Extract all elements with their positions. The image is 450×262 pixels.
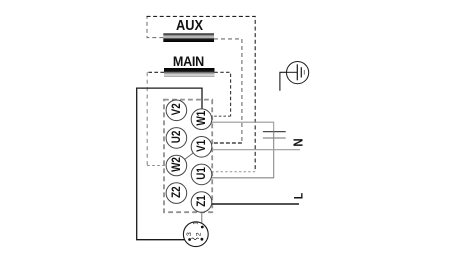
svg-text:V1: V1: [195, 140, 208, 152]
wire frame W1 to sensor (solid): [137, 88, 202, 240]
terminal V2: [166, 100, 187, 121]
svg-text:2: 2: [196, 232, 203, 236]
wire N line from V1: [211, 149, 300, 151]
terminal U2: [166, 128, 187, 149]
wire capacitor top from W1: [211, 122, 274, 131]
capacitor C: [263, 132, 286, 138]
squiggle: [192, 238, 199, 240]
wire AUX-right to V1: [211, 39, 242, 143]
svg-text:L: L: [293, 193, 306, 200]
terminal Z1: [191, 192, 212, 213]
wire MAIN-left to W2: [147, 72, 166, 165]
ground symbol: [287, 62, 309, 84]
winding MAIN: [164, 68, 215, 77]
svg-text:W1: W1: [195, 111, 208, 126]
pin dot lower right: [201, 238, 204, 241]
pin dot lower left: [188, 238, 191, 241]
wire top dashed run to U1: [147, 16, 256, 171]
svg-text:U2: U2: [170, 131, 183, 144]
sensor connector: [183, 221, 208, 247]
wire L line from Z1: [212, 203, 299, 205]
wire capacitor bottom to U1: [211, 131, 274, 177]
terminal box dashed: [164, 100, 212, 213]
wire MAIN-right to W1: [211, 72, 230, 116]
terminal Z2: [166, 183, 187, 204]
svg-text:AUX: AUX: [176, 16, 204, 33]
svg-text:3: 3: [186, 232, 193, 236]
ground wire: [280, 72, 287, 90]
terminal V1: [191, 137, 212, 158]
terminal W1: [191, 109, 212, 130]
svg-text:N: N: [291, 138, 306, 146]
winding AUX: [163, 33, 214, 42]
terminal W2: [166, 155, 187, 176]
pin dot upper right: [201, 226, 204, 229]
svg-text:Z2: Z2: [170, 186, 183, 198]
wire U1 horizontal dashed: [212, 171, 256, 173]
svg-text:U1: U1: [195, 167, 208, 180]
svg-text:Z1: Z1: [195, 195, 208, 207]
svg-text:W2: W2: [170, 157, 183, 172]
terminal U1: [191, 164, 212, 185]
svg-text:MAIN: MAIN: [173, 53, 204, 69]
svg-text:V2: V2: [170, 103, 183, 115]
link W2 to V1: [185, 153, 194, 160]
wire AUX-left to top: [147, 16, 163, 37]
wire Z1 to sensor: [201, 212, 203, 223]
